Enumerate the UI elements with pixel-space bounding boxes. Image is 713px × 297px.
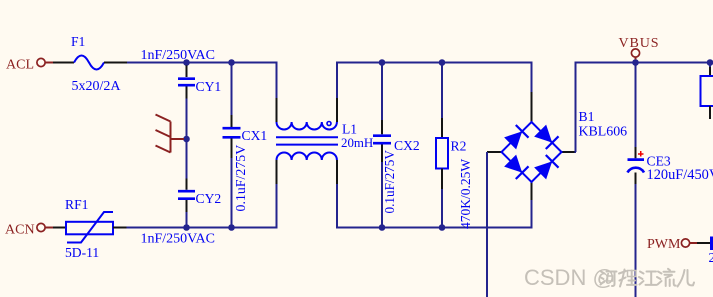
svg-text:CX2: CX2 (394, 138, 420, 153)
capacitor CY2 pin 1 (186, 179, 188, 190)
wire bridge right to VBUS rail (576, 63, 711, 153)
chassis ground symbol (156, 115, 185, 153)
capacitor CX1 pin 1 (231, 63, 233, 127)
inductor L1 core (276, 137, 338, 144)
wire R2 bottom (441, 189, 443, 228)
diode B1 top-right (534, 124, 559, 149)
junction on VBUS rail at CE3 (632, 59, 639, 66)
port ACN (37, 223, 53, 231)
svg-text:ACN: ACN (5, 223, 35, 238)
inductor L1 bottom winding (277, 152, 337, 160)
wire CX2 bottom (381, 162, 383, 228)
wire CX1 top (231, 63, 233, 115)
port PWM (681, 239, 697, 247)
fuse F1 pin 1 (53, 62, 74, 64)
capacitor CE3 pin 1 (635, 147, 637, 158)
svg-text:VBUS: VBUS (619, 36, 660, 51)
capacitor CX2 (373, 136, 391, 144)
inductor L1 bottom winding pin 3 (276, 160, 278, 184)
diode B1 bottom-left (504, 154, 529, 179)
capacitor CE3 polarity + (638, 151, 644, 157)
svg-text:PWM: PWM (647, 237, 681, 252)
bridge B1 pin bottom (531, 182, 533, 200)
fuse F1 pin 2 (104, 62, 127, 64)
wire bottom rail right segment (337, 184, 532, 228)
svg-text:120uF/450V: 120uF/450V (647, 167, 713, 183)
wire CY2 to bottom rail (186, 212, 188, 228)
junction at chassis ground tap (183, 136, 190, 143)
capacitor CY1 (178, 79, 195, 86)
svg-text:ACL: ACL (6, 58, 34, 73)
resistor R2 (436, 138, 448, 169)
svg-text:0.1uF/275V: 0.1uF/275V (382, 150, 397, 214)
inductor L1 polarity dot (327, 122, 331, 126)
junction on top rail at CX1 (228, 59, 235, 66)
bridge B1 pin right (562, 151, 577, 153)
wire bridge left to primary ground (486, 152, 488, 297)
wire right edge resistor top (709, 63, 711, 67)
wire top rail middle segment (337, 63, 532, 99)
capacitor CY1 pin 2 (186, 87, 188, 99)
svg-text:0.1uF/275V: 0.1uF/275V (234, 145, 249, 212)
capacitor CX2 pin 2 (381, 145, 383, 163)
varistor RF1 pin 2 (113, 227, 127, 229)
junction at VBUS rail end (707, 59, 713, 66)
resistor R2 pin 2 (441, 169, 443, 190)
inductor L1 top winding pin 1 (276, 98, 278, 122)
capacitor CY2 pin 2 (186, 200, 188, 212)
port ACL (37, 58, 53, 66)
capacitor CE3 pin 2 (635, 173, 637, 185)
svg-text:CY1: CY1 (196, 79, 222, 94)
junction on top rail at CY1 (183, 59, 190, 66)
svg-text:F1: F1 (71, 34, 85, 49)
bridge B1 pin top (531, 92, 533, 122)
wire CX2 top (381, 63, 383, 120)
wire CE3 top (635, 63, 637, 147)
diode B1 bottom-right (534, 155, 559, 180)
junction on bottom rail at CY2 (183, 224, 190, 231)
capacitor CY1 pin 1 (186, 65, 188, 77)
junction on top rail at R2 (439, 59, 446, 66)
varistor RF1 pin 1 (53, 227, 66, 229)
svg-text:L1: L1 (342, 122, 357, 137)
svg-text:5x20/2A: 5x20/2A (72, 79, 122, 94)
junction on bottom rail at CX2 (379, 224, 386, 231)
junction on bottom rail at CX1 (228, 224, 235, 231)
diode B1 top-left (504, 125, 529, 150)
svg-text:470K/0.25W: 470K/0.25W (458, 159, 473, 229)
svg-text:2: 2 (709, 250, 713, 265)
bridge B1 pin left (487, 151, 502, 153)
capacitor CX1 (223, 128, 241, 137)
wire CE3 bottom (635, 184, 637, 297)
junction on top rail at CX2 (379, 59, 386, 66)
component (right edge, cut off) at PWM (710, 237, 713, 251)
inductor L1 top winding (277, 122, 337, 130)
wire R2 top (441, 63, 443, 118)
svg-text:CX1: CX1 (242, 128, 268, 143)
capacitor CE3 (628, 160, 645, 173)
svg-text:KBL606: KBL606 (579, 125, 628, 140)
resistor R2 pin 1 (441, 118, 443, 138)
junction on bottom rail at R2 (439, 224, 446, 231)
resistor (right edge) pin 2 (709, 106, 711, 119)
svg-text:1nF/250VAC: 1nF/250VAC (141, 48, 215, 63)
svg-text:20mH: 20mH (341, 136, 373, 150)
svg-text:R2: R2 (451, 139, 467, 154)
svg-text:5D-11: 5D-11 (65, 245, 99, 260)
svg-text:CY2: CY2 (196, 191, 222, 206)
varistor RF1 (66, 212, 113, 243)
svg-text:RF1: RF1 (65, 197, 88, 212)
wire CX1 bottom (231, 158, 233, 228)
capacitor CX2 pin 1 (381, 120, 383, 134)
resistor (right edge) pin 1 (709, 67, 711, 76)
capacitor CX1 pin 2 (231, 139, 233, 159)
wire PWM (697, 242, 710, 244)
svg-text:1nF/250VAC: 1nF/250VAC (141, 232, 215, 247)
bridge rectifier B1 diamond (502, 122, 562, 182)
port VBUS (631, 49, 639, 60)
capacitor CY2 (178, 191, 195, 199)
fuse F1 (74, 56, 104, 70)
svg-text:B1: B1 (579, 109, 595, 124)
wire CY1 to CY2 (186, 99, 188, 179)
resistor (right edge, cut off) (701, 76, 713, 106)
inductor L1 bottom winding pin 4 (336, 160, 338, 184)
inductor L1 top winding pin 2 (336, 98, 338, 122)
wire top rail left segment (127, 63, 277, 99)
wire bottom rail left segment (127, 184, 277, 228)
